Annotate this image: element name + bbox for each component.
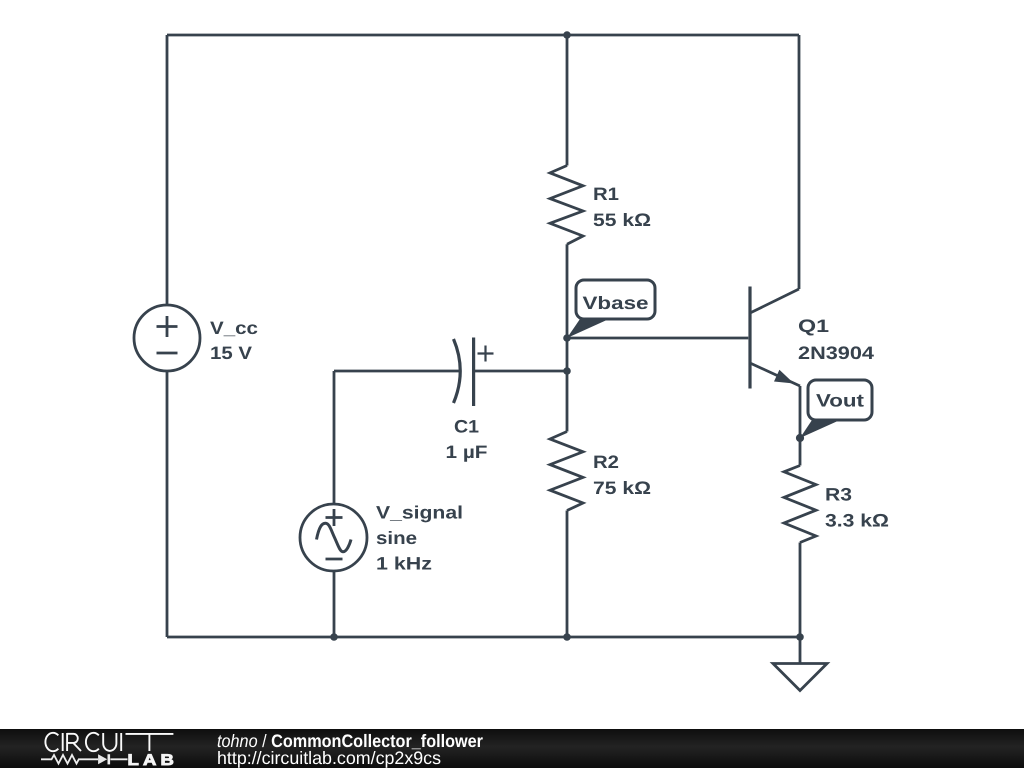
ground bbox=[773, 664, 827, 691]
svg-text:Vout: Vout bbox=[816, 391, 864, 411]
svg-text:sine: sine bbox=[376, 528, 417, 548]
emitter arrow bbox=[774, 370, 794, 384]
wire left rail upper bbox=[166, 35, 169, 305]
svg-text:R2: R2 bbox=[593, 452, 619, 472]
svg-text:V_cc: V_cc bbox=[210, 318, 258, 338]
svg-text:Q1: Q1 bbox=[798, 316, 829, 336]
wire bottom rail bbox=[167, 636, 800, 639]
wire R1 top bbox=[566, 35, 569, 166]
node top junction bbox=[563, 31, 571, 39]
svg-text:1 kHz: 1 kHz bbox=[376, 554, 432, 574]
wire left rail lower bbox=[166, 371, 169, 637]
resistor R1 bbox=[550, 166, 583, 245]
flag Vbase bbox=[567, 280, 655, 338]
wire base bbox=[567, 337, 748, 340]
footer bar bbox=[0, 729, 1024, 768]
wire top rail bbox=[167, 34, 799, 37]
node Vbase junction bbox=[563, 334, 571, 342]
wire V_signal top bbox=[333, 371, 336, 505]
capacitor C1 bbox=[454, 338, 494, 407]
logo resistor-diode bbox=[41, 754, 128, 764]
svg-text:1 µF: 1 µF bbox=[446, 442, 488, 462]
voltage source V_cc bbox=[134, 305, 200, 371]
flag Vout bbox=[800, 380, 872, 438]
sine source V_signal bbox=[300, 504, 367, 571]
svg-text:75 kΩ: 75 kΩ bbox=[593, 478, 651, 498]
wire capacitor left bbox=[334, 370, 459, 373]
node Vout junction bbox=[796, 434, 804, 442]
svg-text:Vbase: Vbase bbox=[583, 293, 649, 313]
logo CIRCUIT bbox=[45, 733, 173, 751]
node capacitor junction bbox=[563, 367, 571, 375]
svg-text:http://circuitlab.com/cp2x9cs: http://circuitlab.com/cp2x9cs bbox=[217, 748, 441, 768]
ground stub bbox=[799, 637, 802, 663]
transistor Q1 bbox=[750, 287, 800, 389]
svg-text:2N3904: 2N3904 bbox=[798, 343, 874, 363]
svg-text:R3: R3 bbox=[825, 485, 852, 505]
wire capacitor right bbox=[474, 370, 567, 373]
node ground junction bbox=[796, 633, 804, 641]
svg-text:C1: C1 bbox=[454, 417, 479, 437]
svg-text:V_signal: V_signal bbox=[376, 503, 463, 523]
wire V_signal bottom bbox=[333, 571, 336, 637]
node V_signal bottom junction bbox=[330, 633, 338, 641]
wire R3 to ground bbox=[799, 543, 802, 638]
svg-text:15 V: 15 V bbox=[210, 343, 252, 363]
svg-text:3.3 kΩ: 3.3 kΩ bbox=[825, 511, 889, 531]
resistor R2 bbox=[550, 432, 583, 511]
wire emitter to R3 bbox=[799, 386, 802, 466]
svg-text:R1: R1 bbox=[593, 184, 619, 204]
wire R1 to base node bbox=[566, 244, 569, 431]
logo diode triangle bbox=[98, 754, 107, 764]
resistor R3 bbox=[784, 466, 816, 543]
svg-text:LAB: LAB bbox=[128, 752, 179, 768]
wire R2 bottom bbox=[566, 511, 569, 638]
node R2 bottom junction bbox=[563, 633, 571, 641]
svg-text:55 kΩ: 55 kΩ bbox=[593, 210, 651, 230]
wire collector bbox=[798, 35, 801, 289]
